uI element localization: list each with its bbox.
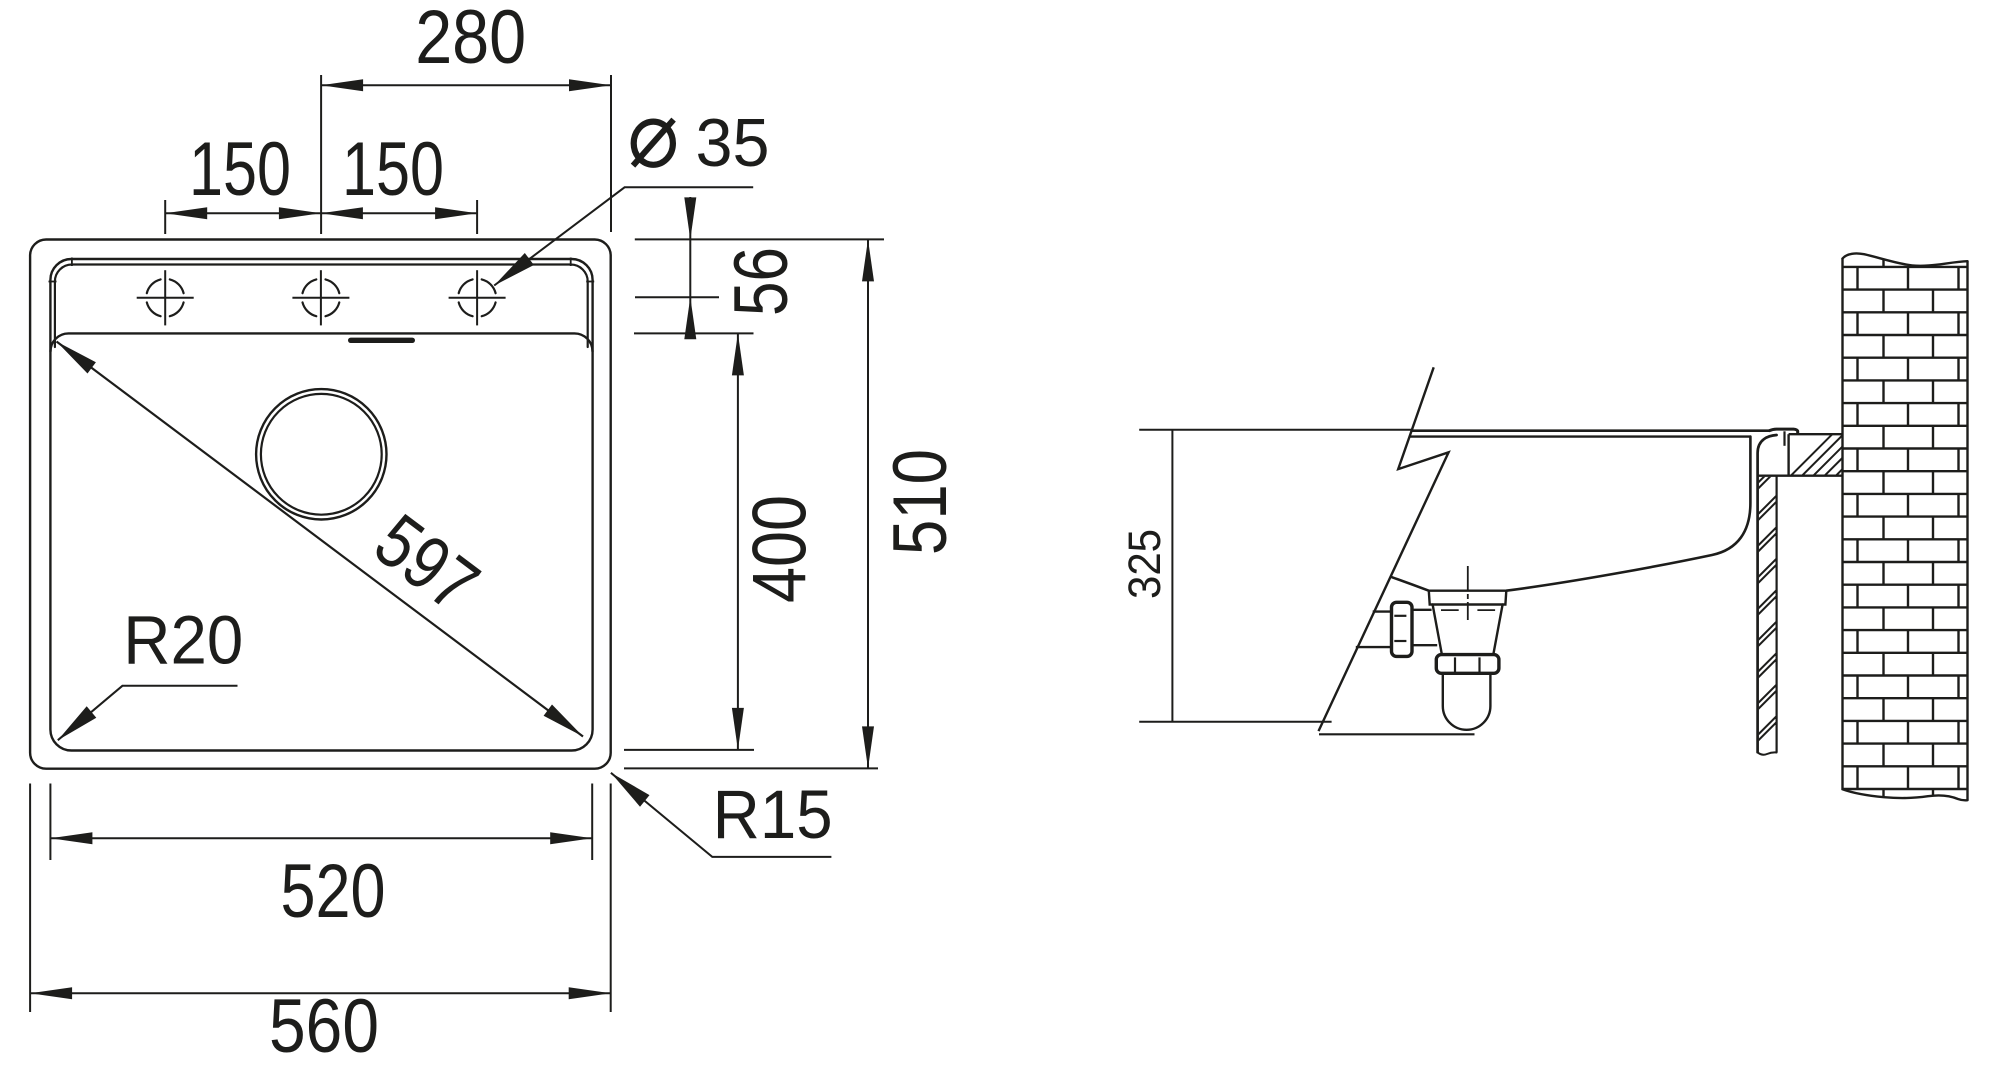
svg-text:150: 150 [342,127,444,212]
svg-text:325: 325 [1119,529,1170,599]
svg-text:R15: R15 [713,776,833,853]
svg-text:R20: R20 [123,602,243,679]
svg-text:520: 520 [281,849,386,934]
svg-text:150: 150 [189,127,291,212]
svg-text:400: 400 [737,495,822,603]
svg-text:280: 280 [415,0,526,80]
svg-text:560: 560 [269,984,379,1069]
svg-text:35: 35 [696,105,770,181]
svg-text:56: 56 [719,247,804,316]
svg-text:510: 510 [878,449,963,555]
